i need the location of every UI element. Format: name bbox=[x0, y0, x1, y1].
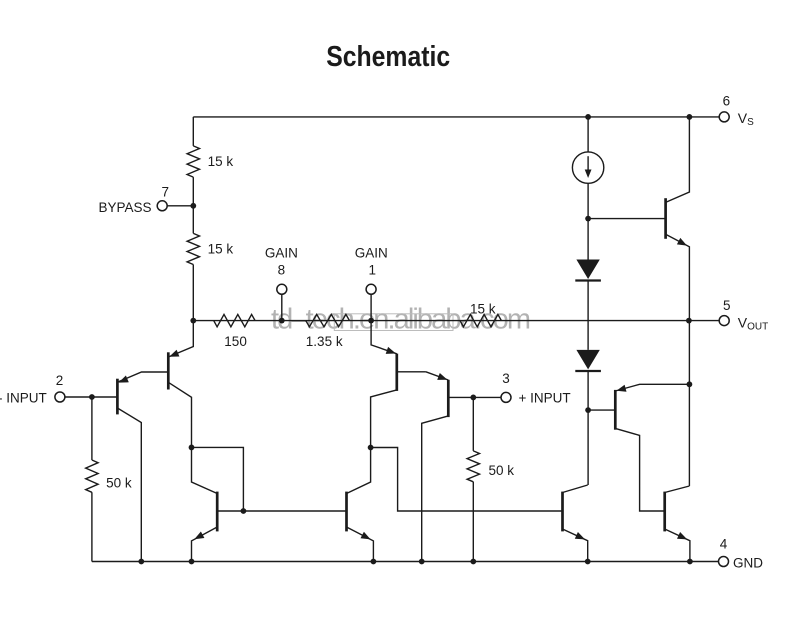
svg-text:GAIN: GAIN bbox=[355, 246, 388, 261]
svg-text:3: 3 bbox=[502, 371, 510, 386]
svg-text:1.35 k: 1.35 k bbox=[306, 334, 343, 349]
svg-text:GAIN: GAIN bbox=[265, 246, 298, 261]
svg-text:- INPUT: - INPUT bbox=[0, 390, 47, 405]
svg-text:150: 150 bbox=[224, 334, 247, 349]
svg-text:50 k: 50 k bbox=[106, 476, 132, 491]
svg-text:15 k: 15 k bbox=[470, 302, 496, 317]
svg-text:5: 5 bbox=[723, 298, 731, 313]
svg-text:15 k: 15 k bbox=[208, 242, 234, 257]
svg-text:7: 7 bbox=[161, 184, 169, 199]
svg-text:+ INPUT: + INPUT bbox=[519, 390, 571, 405]
svg-text:2: 2 bbox=[56, 373, 64, 388]
svg-text:1: 1 bbox=[369, 262, 377, 277]
svg-text:4: 4 bbox=[720, 537, 728, 552]
svg-text:GND: GND bbox=[733, 556, 763, 571]
svg-text:8: 8 bbox=[278, 262, 286, 277]
svg-text:50 k: 50 k bbox=[489, 463, 515, 478]
svg-text:6: 6 bbox=[723, 94, 731, 109]
svg-text:BYPASS: BYPASS bbox=[98, 200, 151, 215]
svg-text:15 k: 15 k bbox=[208, 154, 234, 169]
svg-text:Schematic: Schematic bbox=[326, 41, 450, 73]
